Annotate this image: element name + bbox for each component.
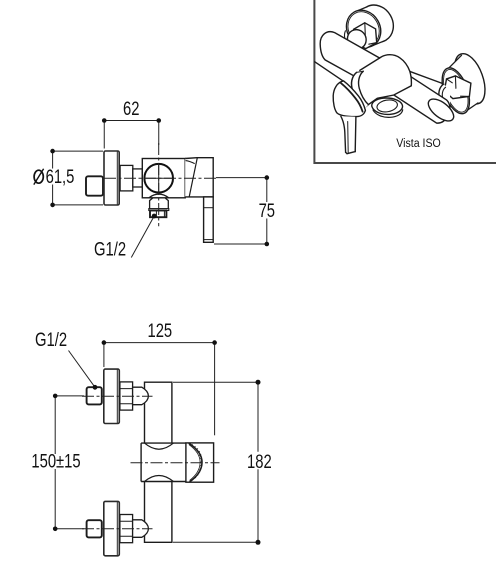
dimension O61,5 symbol: [34, 170, 43, 183]
G1/2 leader (front view): [69, 351, 96, 388]
iso: top union stub: [344, 26, 370, 52]
iso: right union stub inner arc: [442, 87, 445, 99]
iso: top rosette disc back: [352, 0, 400, 48]
side view: vertical centerline through cartridge circle: [158, 143, 160, 226]
iso: top rosette disc front face: [340, 4, 388, 54]
front view: knob dome inner arc: [189, 445, 200, 481]
front view: top union square: [87, 387, 102, 404]
iso: right hex nut facet lines: [447, 76, 470, 97]
iso: right union pipe: [398, 68, 452, 100]
svg-text:Vista ISO: Vista ISO: [396, 137, 441, 150]
side view: sleeve: [120, 165, 133, 191]
iso: cartridge housing upper-left edge: [360, 58, 380, 70]
side view: horizontal centerline: [104, 177, 216, 179]
front view: top flange: [104, 369, 120, 423]
iso: lever bottom facet: [346, 150, 356, 154]
iso: lever: [341, 116, 356, 153]
dimension 62: line and dots: [104, 121, 159, 149]
iso: outlet cylinder: [394, 76, 450, 123]
iso: cartridge ring back rim arc: [359, 71, 369, 104]
dimension 182: line, dots, extensions: [173, 382, 258, 542]
side view: lever end cap line: [204, 239, 214, 241]
svg-text:182: 182: [247, 451, 272, 472]
svg-text:125: 125: [147, 320, 172, 341]
svg-text:G1/2: G1/2: [35, 329, 67, 350]
iso: top rosette cone connector: [354, 7, 386, 45]
side view: outlet collar dome arc: [149, 194, 169, 198]
front view: middle handle centerline: [131, 462, 220, 464]
iso: outlet stub ring inner ellipse: [376, 98, 398, 113]
iso: handle cap: [333, 81, 365, 117]
iso: lever right edge: [354, 117, 357, 152]
front view: middle concave fillet bottom: [145, 475, 174, 481]
G1/2 leader (side view): [131, 216, 154, 258]
iso: outlet cylinder end face: [425, 95, 458, 125]
side view: threaded nipple G1/2: [150, 211, 166, 218]
side view: handle cap slant edge: [189, 158, 197, 198]
ISO inset box frame: [314, 0, 496, 163]
iso: lever inner line: [347, 122, 350, 153]
iso: right rosette inner rim line: [439, 66, 473, 115]
front view: body column: [145, 382, 172, 542]
iso: handle cap rim band: [341, 83, 363, 112]
iso: body: [320, 32, 411, 109]
side view: mixer body: [142, 159, 185, 198]
iso: top hex nut: [353, 23, 377, 49]
iso: cartridge ring front rim arc: [352, 72, 362, 104]
side view: lever joint line: [204, 207, 214, 209]
iso: tube lower edge end at ring: [357, 71, 364, 72]
iso: top rosette inner rim line: [342, 6, 386, 52]
side view: handle lever: [204, 197, 214, 242]
dimension 125: line, dots, extensions: [104, 343, 215, 436]
front view: bottom union square: [87, 520, 102, 537]
side view: wall union square: [86, 176, 103, 195]
iso: outlet stub lower rim: [373, 110, 403, 118]
svg-text:75: 75: [259, 200, 275, 221]
iso: outlet stub ring outer: [372, 98, 403, 114]
side view: nut: [133, 169, 143, 187]
iso: right union stub front rim: [439, 84, 450, 104]
front view: bottom threaded pipe with cap: [133, 520, 149, 538]
front view: knob dome hatching: [191, 445, 203, 482]
side view: outlet collar: [150, 198, 169, 209]
front view: middle wide section: [141, 443, 186, 481]
iso: cartridge ring band: [352, 71, 369, 109]
svg-text:62: 62: [123, 98, 139, 119]
side view: crosshair solid segments in circle: [146, 165, 173, 192]
svg-text:150±15: 150±15: [31, 451, 80, 472]
iso: right hex nut: [444, 76, 471, 99]
front view: top union centerline: [82, 395, 153, 397]
iso: top hex nut facet lines: [354, 23, 377, 44]
side view: wall flange (rosette): [104, 151, 119, 205]
side view: handle cap: [185, 158, 213, 197]
front view: knob dome arc: [189, 443, 202, 482]
front view: bottom union centerline: [82, 528, 153, 530]
dimension 75: line, dots, extensions: [214, 178, 267, 244]
front view: middle concave fillet top: [145, 443, 174, 449]
side view: cartridge circle: [144, 164, 173, 193]
front view: bottom nut: [120, 515, 133, 543]
iso: lever left edge: [341, 116, 346, 152]
dimension O61,5: line, dots, extensions: [53, 151, 103, 205]
dimension 150+-15: line, dots, extensions: [55, 396, 84, 529]
front view: handle knob: [186, 443, 214, 482]
side view: flange inner lip line: [116, 151, 118, 204]
iso: right rosette disc front face: [437, 64, 475, 117]
front view: top nut: [120, 382, 133, 410]
iso: top union stub side wall: [343, 31, 346, 39]
iso: body lower-left silhouette (clipped by box): [315, 62, 344, 82]
iso: right rosette cone connector: [448, 55, 478, 113]
side view: handle cap top-left arc: [186, 161, 195, 164]
side view: outlet collar ring: [149, 209, 169, 211]
front view: bottom flange: [104, 501, 120, 555]
svg-text:G1/2: G1/2: [94, 239, 126, 260]
front view: top threaded pipe with cap: [133, 387, 149, 405]
svg-text:61,5: 61,5: [46, 166, 75, 187]
iso: right rosette disc back: [449, 50, 491, 108]
